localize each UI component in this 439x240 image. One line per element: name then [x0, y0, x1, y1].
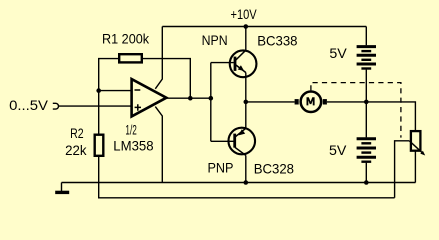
wire R2 bottom to bottom feedback line — [99, 157, 395, 198]
ground symbol bar — [55, 191, 69, 194]
battery B2 — [357, 139, 376, 162]
node battery B2 to ground rail — [364, 180, 369, 185]
wire rail down to battery B1 — [365, 27, 367, 46]
wire pot bottom to ground rail — [414, 151, 416, 183]
svg-text:22k: 22k — [65, 142, 87, 158]
wire mid node to battery B2 top — [365, 102, 367, 137]
battery B1 — [357, 47, 376, 69]
svg-text:R1 200k: R1 200k — [102, 31, 150, 47]
wire +10V rail — [162, 26, 366, 28]
svg-text:5V: 5V — [329, 142, 347, 158]
motor right brush — [323, 99, 327, 104]
wire node to R2 top — [98, 91, 100, 134]
Q2 emitter diagonal — [234, 128, 245, 137]
Q1 collector diagonal — [235, 50, 246, 60]
node R1 to output — [188, 96, 193, 101]
wire NPN collector to rail — [245, 27, 247, 51]
resistor R2 — [95, 135, 104, 156]
motor label M — [307, 97, 315, 105]
Q2 emitter arrowhead — [239, 129, 246, 135]
svg-text:NPN: NPN — [202, 32, 228, 48]
svg-text:R2: R2 — [70, 125, 84, 141]
node output to bases — [209, 96, 214, 101]
svg-text:PNP: PNP — [208, 160, 234, 176]
node minus input junction — [96, 88, 101, 93]
wire battery B2 bottom to ground rail — [365, 163, 367, 183]
transistor Q1 NPN circle — [230, 50, 257, 77]
op-amp minus sign — [135, 89, 141, 91]
wire pot wiper riser — [395, 141, 410, 198]
Q1 emitter diagonal — [235, 65, 246, 73]
wire ground rail — [62, 182, 416, 184]
node battery mid — [364, 100, 369, 105]
wire R1 left + feedback down to inverting node — [99, 59, 118, 91]
potentiometer P1 body — [411, 131, 421, 151]
wire NPN emitter down to node — [245, 73, 247, 102]
svg-text:1/2: 1/2 — [125, 122, 137, 138]
input terminal circle — [53, 103, 59, 109]
resistor R1 — [119, 54, 142, 62]
svg-text:BC328: BC328 — [254, 160, 294, 176]
wire op-amp V- pin — [155, 107, 162, 183]
wire NPN base — [211, 62, 234, 64]
svg-text:BC338: BC338 — [257, 33, 297, 49]
svg-text:+10V: +10V — [231, 6, 258, 22]
node NPN collector on rail — [244, 24, 249, 29]
wire battery B1 bottom to mid node — [365, 70, 367, 102]
wire base drive vertical — [210, 63, 212, 142]
Q2 collector diagonal — [235, 147, 246, 155]
svg-text:LM358: LM358 — [113, 138, 153, 154]
wire non-inverting input — [58, 105, 131, 107]
wire PNP base — [211, 140, 234, 142]
op-amp plus sign — [135, 104, 141, 111]
node PNP collector on ground rail — [244, 180, 249, 185]
wire R1 right to output — [143, 59, 190, 99]
node emitters to motor — [244, 100, 249, 105]
wire op-amp output — [166, 97, 210, 99]
dashed mechanical link motor to pot — [311, 83, 401, 138]
svg-text:5V: 5V — [329, 45, 347, 61]
op-amp U1 triangle — [132, 79, 167, 116]
wire ground stub — [61, 183, 63, 192]
wire PNP collector to ground rail — [245, 155, 247, 182]
wire op-amp V+ pin — [155, 27, 162, 89]
Q2 base bar — [233, 134, 236, 148]
Q1 emitter arrowhead — [238, 65, 244, 71]
motor M1 circle — [301, 92, 322, 113]
wire PNP emitter up to node — [245, 102, 247, 128]
Q1 base bar — [234, 57, 237, 71]
motor left brush — [295, 99, 299, 104]
svg-text:0...5V: 0...5V — [9, 97, 49, 113]
potentiometer wiper arrow — [409, 141, 423, 154]
wire motor right to pot top — [327, 102, 416, 131]
wire emitters node to motor — [246, 101, 295, 103]
wire inverting input — [99, 90, 132, 92]
transistor Q2 PNP circle — [228, 128, 255, 155]
